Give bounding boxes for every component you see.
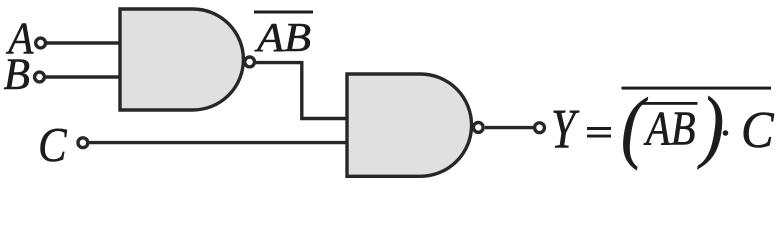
svg-text:(: ( (621, 83, 648, 171)
svg-text:AB: AB (254, 14, 311, 60)
svg-text:Y: Y (551, 99, 580, 161)
svg-text:C: C (38, 119, 67, 172)
svg-text:C: C (741, 102, 775, 159)
svg-text:): ) (697, 82, 724, 170)
svg-text:B: B (4, 48, 30, 98)
svg-text:AB: AB (643, 103, 695, 156)
